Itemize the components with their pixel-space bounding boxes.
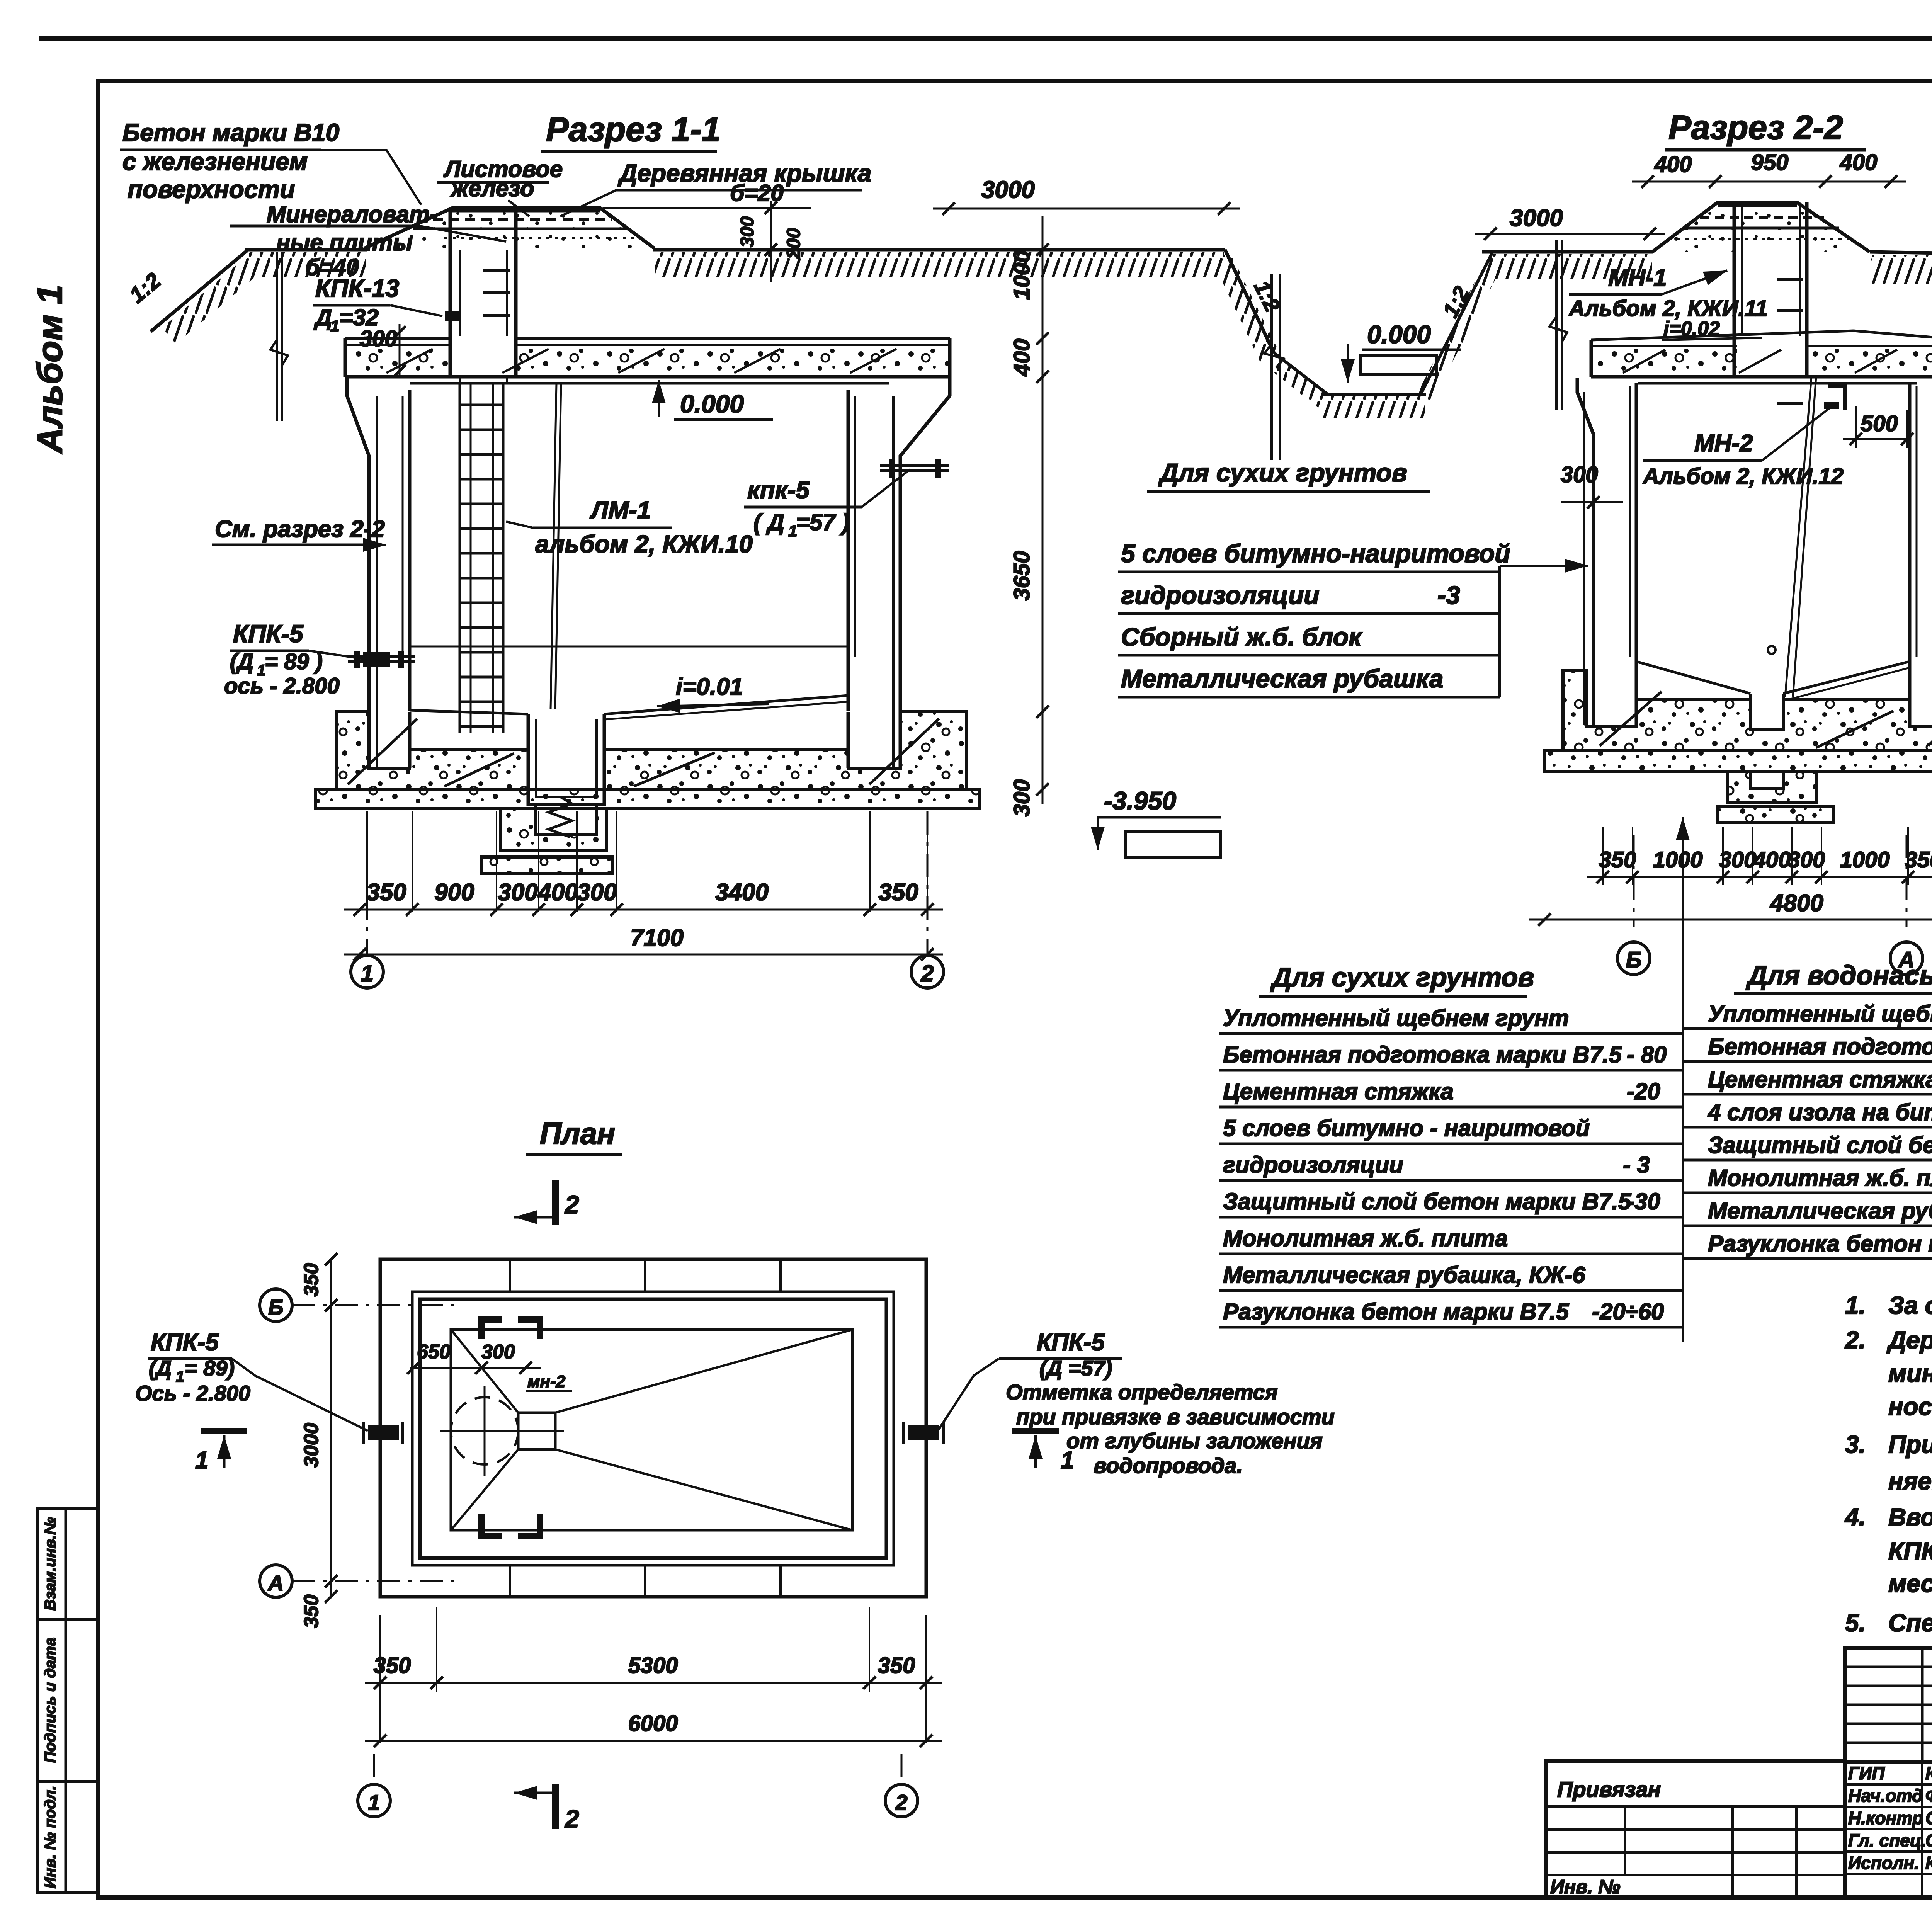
svg-text:2.: 2. [1845,1326,1866,1354]
svg-text:0.000: 0.000 [680,389,744,418]
svg-text:ные плиты: ные плиты [276,230,413,255]
svg-text:Привязан: Привязан [1557,1777,1661,1801]
svg-text:1: 1 [330,317,339,335]
svg-text:План: План [540,1116,615,1150]
svg-text:Бетон марки В10: Бетон марки В10 [122,119,339,146]
svg-text:См. разрез 2-2: См. разрез 2-2 [215,516,385,543]
svg-text:1: 1 [361,961,373,986]
svg-text:Б: Б [1626,947,1641,973]
svg-text:400: 400 [1753,847,1791,872]
svg-text:400: 400 [1840,150,1878,175]
svg-text:350: 350 [1905,847,1932,872]
svg-text:Степнов: Степнов [1925,1808,1932,1828]
svg-text:Разрез 2-2: Разрез 2-2 [1668,108,1843,146]
svg-text:(Д: (Д [149,1356,172,1380]
svg-text:Бетонная подготовка марки В7.5: Бетонная подготовка марки В7.5 [1223,1042,1622,1068]
svg-text:альбом 2, КЖИ.10: альбом 2, КЖИ.10 [535,530,753,558]
svg-text:=57 ): =57 ) [796,509,849,535]
svg-text:300: 300 [1009,779,1034,817]
svg-text:Бетонная подготовка марки В7.5: Бетонная подготовка марки В7.5 [1708,1034,1932,1060]
svg-text:Цементная стяжка: Цементная стяжка [1708,1066,1932,1092]
svg-text:4.: 4. [1844,1503,1866,1531]
svg-text:Нач.отд: Нач.отд [1848,1786,1923,1806]
svg-text:КПК-13: КПК-13 [315,274,399,302]
svg-text:300: 300 [1561,462,1598,487]
svg-text:Альбом 1: Альбом 1 [30,285,70,454]
svg-text:Для водонасыщенных грунтов: Для водонасыщенных грунтов [1746,960,1932,990]
svg-text:300: 300 [737,216,758,247]
svg-text:350: 350 [878,879,918,906]
svg-text:Ось - 2.800: Ось - 2.800 [135,1381,250,1405]
svg-text:Металлическая рубашка , КЖ-6: Металлическая рубашка , КЖ-6 [1708,1198,1932,1224]
svg-text:Защитный слой бетон марки В7.5: Защитный слой бетон марки В7.5 [1708,1132,1932,1158]
svg-text:- 80: - 80 [1627,1042,1667,1068]
svg-text:350: 350 [300,1595,323,1628]
svg-text:Монолитная ж.б. плита: Монолитная ж.б. плита [1708,1165,1932,1191]
svg-text:ось - 2.800: ось - 2.800 [224,673,340,699]
svg-text:КПК-5: КПК-5 [1037,1329,1105,1356]
svg-text:5300: 5300 [628,1653,678,1678]
svg-text:5 слоев битумно - наиритовой: 5 слоев битумно - наиритовой [1223,1115,1590,1141]
svg-text:Разуклонка бетон марки В7.5: Разуклонка бетон марки В7.5 [1708,1231,1932,1257]
svg-text:гидроизоляции: гидроизоляции [1223,1152,1403,1178]
svg-text:Минераловат-: Минераловат- [267,201,437,227]
svg-text:от глубины заложения: от глубины заложения [1066,1429,1323,1453]
svg-text:3400: 3400 [715,879,769,906]
svg-text:Подпись и дата: Подпись и дата [42,1638,59,1763]
svg-text:3000: 3000 [981,177,1035,203]
svg-text:650: 650 [417,1341,451,1363]
svg-text:МН-1: МН-1 [1608,265,1667,291]
svg-text:Примыкание дыхательной трубы к: Примыкание дыхательной трубы к стенке лю… [1888,1430,1932,1458]
svg-text:А: А [267,1571,284,1595]
svg-text:Альбом 2, КЖИ.12: Альбом 2, КЖИ.12 [1642,464,1844,489]
svg-text:Юдин: Юдин [1925,1763,1932,1783]
svg-text:МН-2: МН-2 [1694,430,1753,457]
svg-text:900: 900 [434,879,474,906]
svg-text:б=20: б=20 [730,180,784,206]
svg-text:Отметка определяется: Отметка определяется [1006,1380,1278,1404]
svg-text:1.: 1. [1845,1291,1866,1319]
svg-text:= 89): = 89) [185,1356,235,1380]
svg-text:5.: 5. [1845,1609,1866,1637]
svg-text:поверхности: поверхности [128,175,295,203]
svg-text:КПК-13, устанавливаемой в стен: КПК-13, устанавливаемой в стенке люка-ла… [1888,1537,1932,1565]
svg-text:ГИП: ГИП [1848,1763,1885,1783]
svg-text:Б: Б [268,1295,284,1319]
svg-text:-20÷60: -20÷60 [1592,1299,1664,1325]
svg-text:Д: Д [313,304,332,330]
svg-text:- 3: - 3 [1623,1152,1650,1178]
svg-text:350: 350 [366,879,406,906]
svg-text:Взам.инв.№: Взам.инв.№ [42,1517,59,1611]
svg-text:Монолитная ж.б. плита: Монолитная ж.б. плита [1223,1225,1508,1251]
svg-text:i=0.01: i=0.01 [676,673,743,700]
svg-text:Сборный ж.б. блок: Сборный ж.б. блок [1121,622,1363,651]
svg-text:4 слоя изола на битумной масти: 4 слоя изола на битумной мастике [1708,1099,1932,1125]
svg-text:-3: -3 [1437,581,1460,609]
svg-text:Ввод контрольных кабелей в рез: Ввод контрольных кабелей в резервуар осу… [1888,1503,1932,1531]
svg-text:0.000: 0.000 [1367,320,1431,349]
svg-text:3000: 3000 [1510,205,1563,231]
svg-text:4800: 4800 [1769,890,1823,917]
svg-text:300: 300 [360,326,397,351]
svg-text:Металлическая рубашка, КЖ-6: Металлическая рубашка, КЖ-6 [1223,1262,1585,1288]
svg-text:-30: -30 [1627,1189,1660,1214]
svg-text:Защитный слой бетон марки В7.5: Защитный слой бетон марки В7.5 [1223,1189,1632,1214]
svg-text:300: 300 [481,1341,515,1363]
svg-text:Разуклонка бетон марки В7.5: Разуклонка бетон марки В7.5 [1223,1299,1570,1325]
svg-text:2: 2 [564,1190,579,1219]
svg-text:при привязке в зависимости: при привязке в зависимости [1016,1405,1335,1429]
svg-text:200: 200 [784,228,804,259]
svg-text:Для сухих грунтов: Для сухих грунтов [1158,458,1407,487]
svg-text:-20: -20 [1627,1078,1660,1104]
svg-text:400: 400 [1009,339,1034,377]
svg-text:350: 350 [374,1653,411,1678]
svg-text:300: 300 [1719,847,1757,872]
svg-text:Исполн.: Исполн. [1848,1853,1919,1873]
svg-text:2: 2 [920,961,934,986]
svg-text:-3.950: -3.950 [1104,786,1176,815]
svg-text:кпк-5: кпк-5 [747,476,810,504]
svg-text:500: 500 [1861,411,1898,436]
svg-text:КПК-5: КПК-5 [151,1329,219,1356]
svg-text:железо: железо [450,175,534,201]
svg-text:1000: 1000 [1009,250,1034,300]
svg-text:1: 1 [368,1790,380,1815]
svg-text:5 слоев битумно-наиритовой: 5 слоев битумно-наиритовой [1121,539,1510,568]
svg-text:950: 950 [1751,150,1789,175]
svg-text:Цементная стяжка: Цементная стяжка [1223,1078,1454,1104]
svg-text:водопровода.: водопровода. [1094,1453,1243,1478]
svg-text:2: 2 [564,1804,579,1833]
svg-text:Разрез 1-1: Разрез 1-1 [546,110,721,148]
svg-text:месту.: месту. [1888,1570,1932,1597]
svg-text:400: 400 [537,879,578,906]
svg-text:КПК-5: КПК-5 [233,620,304,648]
svg-text:300: 300 [1788,847,1825,872]
svg-text:минераловатные плиты толщ. 40м: минераловатные плиты толщ. 40мм на внутр… [1888,1359,1932,1387]
svg-text:няется на сварке по месту см.: няется на сварке по месту см. ТХ-2. [1888,1467,1932,1495]
svg-text:= 89 ): = 89 ) [265,649,323,674]
svg-text:2: 2 [895,1790,907,1815]
svg-text:300: 300 [577,879,617,906]
svg-text:Н.контр: Н.контр [1848,1808,1923,1828]
svg-text:3000: 3000 [300,1423,323,1468]
svg-text:350: 350 [1599,847,1636,872]
svg-text:мн-2: мн-2 [527,1372,566,1391]
svg-text:400: 400 [1654,152,1692,177]
svg-text:Гл. спец.: Гл. спец. [1848,1830,1926,1850]
svg-text:Инв. №: Инв. № [1550,1876,1620,1898]
svg-text:1: 1 [195,1447,208,1474]
svg-text:с железнением: с железнением [122,148,308,175]
svg-text:6000: 6000 [628,1711,678,1736]
svg-text:Металлическая рубашка: Металлическая рубашка [1121,664,1444,693]
svg-text:1000: 1000 [1653,847,1702,872]
svg-text:Кульков: Кульков [1925,1853,1932,1873]
svg-text:i=0.02: i=0.02 [1663,318,1720,340]
svg-text:( Д: ( Д [753,509,784,535]
svg-text:300: 300 [498,879,537,906]
svg-text:Уплотненный щебнем грунт: Уплотненный щебнем грунт [1708,1001,1932,1027]
svg-text:Для сухих грунтов: Для сухих грунтов [1270,962,1534,992]
svg-text:(Д =57): (Д =57) [1039,1356,1112,1380]
svg-text:350: 350 [878,1653,915,1678]
svg-text:Инв. № подл.: Инв. № подл. [42,1786,59,1888]
svg-text:Степнов: Степнов [1925,1830,1932,1850]
svg-text:За отметку 0.000 принята план: За отметку 0.000 принята планировочная о… [1888,1291,1932,1319]
svg-text:Уплотненный щебнем грунт: Уплотненный щебнем грунт [1223,1005,1569,1031]
svg-text:ности крышки.: ности крышки. [1888,1393,1932,1420]
svg-text:3.: 3. [1845,1430,1866,1458]
svg-text:гидроизоляции: гидроизоляции [1121,581,1320,609]
svg-text:Федотов: Федотов [1925,1786,1932,1806]
svg-text:3650: 3650 [1009,551,1034,600]
svg-text:Спецификация закладных деталей: Спецификация закладных деталей КПК в сте… [1888,1609,1932,1637]
svg-text:ЛМ-1: ЛМ-1 [590,496,651,524]
svg-text:Деревянную крышку обить листов: Деревянную крышку обить листовым железом… [1886,1326,1932,1354]
svg-text:1000: 1000 [1840,847,1889,872]
svg-text:7100: 7100 [630,925,684,951]
svg-text:(Д: (Д [230,649,253,674]
svg-text:350: 350 [300,1263,323,1297]
